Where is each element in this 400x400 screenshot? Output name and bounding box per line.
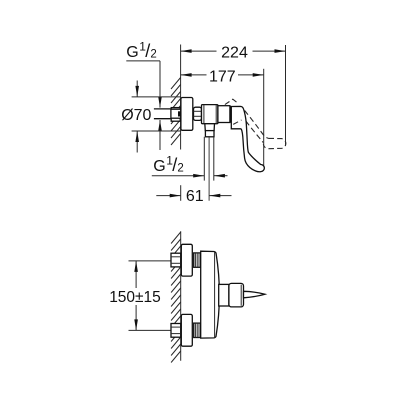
outlet stub bbox=[205, 124, 215, 137]
svg-text:150±15: 150±15 bbox=[109, 289, 161, 306]
svg-text:G: G bbox=[126, 44, 138, 61]
outlet pipe (G 1/2 thread) bbox=[203, 137, 205, 181]
dimension Ø70 bbox=[121, 81, 180, 153]
handle base (plan) bbox=[229, 283, 244, 307]
union thread top inlet (plan) bbox=[194, 253, 201, 267]
dimension 61 bbox=[156, 185, 231, 205]
dimension 177 bbox=[181, 68, 264, 85]
wall hatching (bottom drawing) bbox=[171, 232, 181, 363]
hex nut bottom inlet (plan) bbox=[171, 324, 181, 338]
label G 1/2 (bottom, outlet thread) bbox=[152, 154, 228, 178]
escutcheon (top drawing) bbox=[181, 98, 193, 131]
dimension 224 bbox=[181, 45, 286, 62]
svg-text:61: 61 bbox=[186, 188, 204, 205]
label G 1/2 (top, supply thread) bbox=[126, 40, 162, 151]
union nut bbox=[194, 107, 202, 120]
extension line right of 224 bbox=[285, 45, 287, 146]
svg-text:Ø70: Ø70 bbox=[121, 107, 151, 124]
wall line (bottom drawing) bbox=[180, 231, 182, 361]
bold seam bbox=[230, 106, 232, 122]
hex nut at wall (top drawing) bbox=[171, 108, 181, 122]
dashed lever (raised position) bbox=[245, 111, 286, 149]
dashed grip (stadium) bbox=[263, 138, 285, 148]
dashed raised-lever back edge over handle bbox=[225, 99, 242, 124]
supply pipe (top drawing) bbox=[154, 108, 171, 110]
escutcheon top inlet (plan) bbox=[181, 244, 192, 276]
cartridge housing bbox=[218, 106, 231, 123]
wall line (top drawing) bbox=[180, 45, 182, 150]
extension line right of 177 bbox=[263, 69, 265, 167]
dimension 150±15 bbox=[109, 261, 171, 331]
hex nut top inlet (plan) bbox=[171, 253, 181, 267]
handle base and lever (solid, rest position) bbox=[231, 106, 264, 171]
svg-text:2: 2 bbox=[177, 162, 183, 174]
svg-text:177: 177 bbox=[209, 68, 236, 85]
cartridge ring (plan) bbox=[219, 284, 229, 306]
mixer body bbox=[202, 105, 218, 124]
union thread bottom inlet (plan) bbox=[194, 323, 201, 337]
lever seen edge-on (plan) bbox=[244, 291, 265, 298]
svg-text:G: G bbox=[153, 158, 165, 175]
svg-text:2: 2 bbox=[150, 48, 156, 60]
wall hatching (top drawing) bbox=[171, 78, 181, 146]
escutcheon bottom inlet (plan) bbox=[181, 314, 192, 346]
outlet axis line bbox=[208, 137, 210, 201]
svg-text:224: 224 bbox=[221, 45, 248, 62]
dashed lower diagonal bbox=[246, 121, 263, 143]
dashed underside near pivot bbox=[233, 120, 241, 124]
mixer body (plan) bbox=[201, 251, 220, 338]
dashed upper diagonal bbox=[245, 111, 269, 139]
